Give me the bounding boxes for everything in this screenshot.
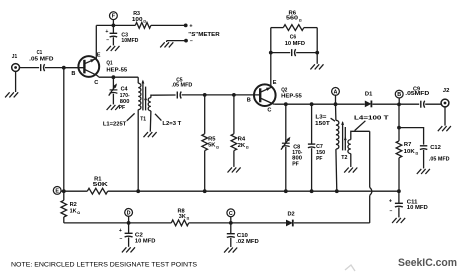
- svg-text:D: D: [127, 210, 131, 216]
- node: L3 / E bus: [335, 189, 339, 193]
- node: C8 / E bus: [284, 189, 288, 193]
- ground (L2): [144, 132, 157, 137]
- svg-text:+: +: [189, 23, 192, 29]
- wire: L4 feed down to detector bus (hops over E bus): [370, 131, 372, 223]
- svg-text:560: 560: [286, 16, 298, 22]
- svg-text:J2: J2: [443, 88, 450, 94]
- transformer T1 secondary L2 3T: [148, 95, 181, 127]
- capacitor C9 .05MFD: [405, 87, 429, 108]
- wire: C9 to J2: [425, 103, 441, 105]
- svg-text:+: +: [105, 29, 108, 35]
- node: C6 right: [315, 51, 319, 55]
- wire: J1 to ground: [15, 71, 17, 92]
- ground (J1): [5, 92, 18, 97]
- svg-text:10K: 10K: [404, 149, 416, 155]
- node: C / C10 tap: [229, 221, 233, 225]
- wire: R3 to meter plus terminal: [151, 24, 186, 26]
- wire: junction to Q1 base: [64, 67, 85, 69]
- diode D1: [365, 91, 373, 107]
- svg-text:–: –: [106, 38, 109, 44]
- svg-text:E: E: [97, 52, 101, 58]
- svg-text:10 MFD: 10 MFD: [285, 41, 305, 47]
- svg-text:L4=100 T: L4=100 T: [354, 115, 389, 121]
- svg-text:E: E: [273, 80, 277, 86]
- svg-text:2K: 2K: [238, 143, 246, 149]
- jack J1: [12, 54, 20, 71]
- node: R4 tap: [232, 93, 236, 97]
- capacitor C5 .05 MFD: [172, 77, 193, 98]
- node: C8 tap: [284, 102, 288, 106]
- svg-text:C1: C1: [37, 50, 43, 56]
- svg-text:C: C: [94, 80, 98, 86]
- capacitor C12 .05 MFD: [399, 128, 450, 169]
- svg-text:+: +: [389, 199, 392, 205]
- svg-text:C: C: [229, 211, 233, 217]
- ground (L4): [344, 168, 357, 173]
- svg-text:–: –: [190, 39, 193, 45]
- resistor R3 100 ohm: [132, 11, 151, 28]
- svg-text:PF: PF: [316, 156, 323, 162]
- node: C7 / E bus: [310, 189, 314, 193]
- wire: Q2 collector to D1: [274, 103, 365, 105]
- svg-text:R7: R7: [404, 142, 411, 148]
- ground (J2): [438, 126, 451, 131]
- transistor Q1 HEP-55: [71, 52, 128, 85]
- svg-text:D1: D1: [365, 91, 373, 97]
- svg-text:–: –: [120, 236, 123, 242]
- svg-text:E: E: [55, 188, 59, 194]
- svg-text:T2: T2: [341, 155, 347, 161]
- wire: Q1 emitter up to F bus: [95, 25, 97, 58]
- node: R7 / C12 branch: [397, 126, 401, 130]
- svg-text:L1=225T: L1=225T: [103, 121, 127, 127]
- svg-text:3K: 3K: [179, 214, 187, 220]
- meter - terminal and wire: [167, 39, 193, 45]
- E bus wire (right of R1): [108, 190, 399, 192]
- svg-text:C6: C6: [290, 35, 297, 41]
- svg-text:R5: R5: [208, 136, 216, 142]
- transformer T2 winding L4 100T: [348, 115, 389, 167]
- capacitor C8 variable 170-800 PF: [281, 104, 302, 191]
- capacitor C4 variable 170-800 PF: [109, 77, 130, 111]
- svg-text:B: B: [397, 92, 401, 98]
- svg-text:"S"METER: "S"METER: [188, 32, 219, 38]
- svg-text:.02 MFD: .02 MFD: [236, 239, 259, 245]
- svg-text:100: 100: [132, 17, 143, 23]
- wire: L1 bottom to E bus: [137, 110, 139, 192]
- capacitor C10 .02 MFD: [227, 223, 259, 247]
- svg-text:Ω: Ω: [187, 217, 190, 221]
- node: D / C2 tap: [127, 221, 131, 225]
- test point D: [125, 209, 133, 223]
- svg-text:Ω: Ω: [416, 152, 419, 156]
- wire: L2 top to C5: [153, 94, 176, 96]
- svg-text:R4: R4: [238, 136, 246, 142]
- svg-text:HEP-55: HEP-55: [106, 67, 128, 73]
- resistor R6 560 ohm: [271, 10, 317, 30]
- node: R5 / E bus: [203, 189, 207, 193]
- node: B / R7 tap: [397, 103, 401, 107]
- node: L1 / E bus: [136, 189, 140, 193]
- node: C4 tap: [112, 75, 116, 79]
- svg-text:Ω: Ω: [246, 146, 249, 150]
- capacitor C1 .05 MFD: [29, 50, 53, 71]
- note text: [11, 262, 197, 269]
- wire: C1 to Q1 base node: [45, 67, 64, 69]
- svg-text:J1: J1: [12, 54, 17, 60]
- svg-text:L3=: L3=: [315, 115, 327, 121]
- svg-text:Ω: Ω: [77, 211, 80, 215]
- transformer T2 core (adjustable): [341, 121, 347, 161]
- node: C7 tap: [310, 102, 314, 106]
- resistor R2 1K: [61, 191, 80, 223]
- svg-text:B: B: [247, 97, 251, 103]
- resistor R5 5K: [202, 95, 219, 191]
- ground (C10): [224, 248, 237, 253]
- resistor R7 10K: [396, 104, 418, 191]
- E bus wire (left of R1): [61, 190, 87, 192]
- svg-text:+: +: [119, 228, 122, 234]
- resistor R4 2K: [231, 95, 249, 167]
- test point C: [227, 209, 235, 223]
- svg-text:150T: 150T: [315, 121, 330, 127]
- svg-text:SeekIC.com: SeekIC.com: [398, 257, 457, 269]
- jack J2: [441, 88, 449, 107]
- wire: Q2 emitter up to R6/C6: [270, 28, 272, 87]
- svg-text:R2: R2: [70, 202, 77, 208]
- test point B: [395, 90, 403, 104]
- ground (meter): [160, 41, 173, 48]
- resistor R8 3K: [171, 209, 189, 226]
- svg-text:B: B: [71, 71, 75, 77]
- label: S METER: [188, 32, 219, 38]
- transformer T2 winding L3 150T: [315, 104, 339, 191]
- svg-text:Ω: Ω: [143, 20, 146, 24]
- svg-text:5K: 5K: [208, 143, 216, 149]
- svg-text:170-: 170-: [120, 93, 130, 99]
- svg-text:PF: PF: [292, 162, 299, 168]
- svg-text:.05 MFD: .05 MFD: [29, 56, 53, 62]
- ground (C12): [417, 169, 430, 174]
- node: E bus / C11: [397, 189, 401, 193]
- ground (C3): [106, 46, 119, 51]
- capacitor C3 10MFD: [105, 25, 138, 45]
- wire: F bus left segment: [96, 24, 135, 26]
- transformer T1 core (adjustable): [140, 80, 147, 123]
- svg-text:C12: C12: [430, 145, 441, 151]
- test point F: [110, 12, 118, 26]
- svg-text:1K: 1K: [70, 208, 78, 214]
- svg-text:10MFD: 10MFD: [121, 38, 138, 44]
- svg-text:–: –: [390, 209, 393, 215]
- svg-text:HEP-55: HEP-55: [281, 94, 302, 100]
- svg-text:D2: D2: [288, 212, 295, 218]
- D bus wire (left of R8): [64, 222, 172, 224]
- wire: R6/C6 right leg to ground: [316, 28, 318, 64]
- D bus wire (R8 to D2): [189, 222, 286, 224]
- wire: C5 to Q2 base: [182, 94, 261, 96]
- capacitor C6 10 MFD: [271, 35, 317, 56]
- svg-text:Q1: Q1: [106, 60, 113, 66]
- svg-text:Ω: Ω: [216, 145, 219, 149]
- watermark SeekIC.com: [345, 257, 457, 271]
- ground (C2): [122, 247, 135, 252]
- ground (R4): [228, 167, 241, 172]
- svg-text:NOTE: ENCIRCLED LETTERS DESIGN: NOTE: ENCIRCLED LETTERS DESIGNATE TEST P…: [11, 262, 197, 269]
- capacitor C11 10 MFD: [389, 191, 428, 217]
- capacitor C2 10 MFD: [119, 223, 155, 247]
- resistor R1 50K: [87, 176, 109, 194]
- diode D2: [286, 212, 295, 227]
- node: F bus / C3 tap: [112, 24, 116, 28]
- D bus wire (D2 to corner): [294, 222, 370, 224]
- wire: J2 to ground: [444, 107, 446, 126]
- wire: base junction down to E bus: [63, 68, 65, 192]
- wire: J1 to C1: [20, 67, 40, 69]
- svg-text:.05 MFD: .05 MFD: [172, 83, 193, 89]
- wire: D1 to C9: [372, 103, 419, 105]
- svg-text:C4: C4: [121, 87, 129, 93]
- ground (C4): [107, 105, 120, 110]
- capacitor C7 150 PF: [308, 104, 325, 191]
- svg-text:T1: T1: [140, 117, 146, 123]
- transformer T1 primary L1 225T: [103, 83, 141, 127]
- svg-text:A: A: [334, 89, 338, 95]
- ground (C11): [392, 218, 405, 223]
- node: A / T2 tap: [334, 102, 338, 106]
- wire: L2 bottom to ground: [149, 111, 152, 132]
- svg-text:10 MFD: 10 MFD: [407, 205, 428, 211]
- node: C6 left: [269, 51, 273, 55]
- test point A: [332, 88, 340, 105]
- svg-text:10 MFD: 10 MFD: [135, 239, 156, 245]
- svg-text:Ω: Ω: [299, 18, 302, 22]
- svg-text:C: C: [267, 108, 271, 114]
- wire: Q1 collector bus to T1: [99, 77, 138, 83]
- transistor Q2 HEP-55: [247, 80, 303, 114]
- test point E: [53, 187, 61, 195]
- svg-text:L2=3 T: L2=3 T: [162, 121, 181, 127]
- svg-text:50K: 50K: [93, 182, 109, 188]
- svg-text:.05 MFD: .05 MFD: [429, 157, 450, 163]
- node: E bus / base drop: [62, 189, 66, 193]
- svg-text:.05MFD: .05MFD: [405, 91, 429, 97]
- ground (R6/C6): [310, 64, 323, 69]
- meter + terminal: [184, 23, 193, 29]
- node: Q1 base junction: [62, 66, 66, 70]
- node: R5 tap: [203, 93, 207, 97]
